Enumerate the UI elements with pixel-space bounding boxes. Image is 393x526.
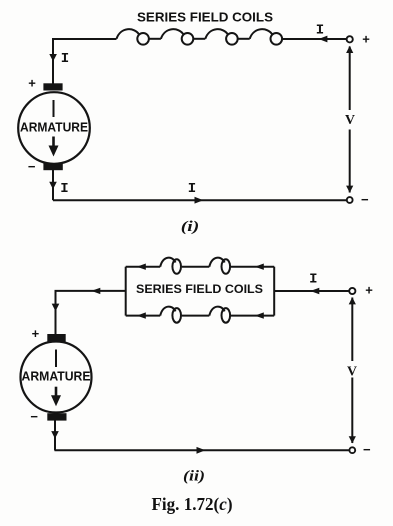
wire: bottom return (i) [53, 199, 347, 201]
arrow: current down out of armature (ii) [51, 431, 59, 439]
arrow: current I left toward coils (i) [319, 36, 328, 43]
svg-text:−: − [361, 192, 369, 207]
svg-text:I: I [316, 22, 324, 38]
wire: V arrow line upper (i) [349, 47, 351, 111]
brush top (i) [43, 83, 62, 90]
svg-text:(ii): (ii) [183, 469, 205, 485]
arrow: current I left on right lead (ii) [310, 288, 319, 294]
arrow: current I right on bottom wire (i) [195, 197, 204, 204]
svg-text:−: − [30, 409, 38, 424]
armature M1 circle (i) [18, 92, 90, 164]
arrow: bottom branch right arrowhead (ii) [255, 312, 264, 318]
wire: bottom return (ii) [55, 449, 350, 451]
svg-text:+: + [362, 32, 370, 47]
armature M2 circle (ii) [21, 342, 92, 413]
svg-text:−: − [363, 442, 371, 457]
svg-text:I: I [60, 181, 68, 197]
svg-text:Fig. 1.72(c): Fig. 1.72(c) [152, 494, 233, 514]
svg-text:I: I [61, 51, 69, 67]
armature M1 thick arrow head (i) [49, 146, 59, 157]
armature M2 thick arrow head (ii) [51, 395, 61, 406]
arrow: current I down out of armature (i) [49, 182, 57, 190]
arrow: current right on bottom wire (ii) [197, 447, 206, 454]
svg-text:V: V [347, 365, 357, 380]
terminal + (i) [347, 36, 353, 42]
arrow: current I down into armature (i) [49, 54, 57, 61]
wire: V arrow line upper (ii) [351, 298, 353, 362]
wire: left lead of coil box to armature (ii) [56, 291, 126, 334]
terminal + (ii) [349, 288, 355, 294]
coil L2b parallel field coils bottom branch (ii) [126, 307, 275, 323]
arrow: current left on left lead (ii) [91, 288, 100, 294]
svg-text:+: + [32, 326, 40, 341]
brush bottom (ii) [47, 413, 66, 420]
arrow: current down into armature (ii) [52, 304, 60, 312]
arrow: bottom branch left arrowhead (ii) [137, 312, 146, 318]
svg-text:SERIES FIELD COILS: SERIES FIELD COILS [136, 282, 263, 296]
armature M1 inner arrow shaft (i) [52, 137, 55, 148]
arrow: V up arrowhead (i) [346, 46, 353, 53]
wire: left rail bottom segment (i) [52, 170, 54, 200]
arrow: V up arrowhead (ii) [349, 297, 356, 304]
svg-text:ARMATURE: ARMATURE [22, 369, 91, 383]
circuit (ii) field coil box left edge [125, 267, 127, 316]
arrow: V down arrowhead (i) [346, 186, 353, 193]
wire: V arrow line lower (i) [349, 130, 351, 193]
svg-text:I: I [188, 181, 196, 197]
brush top (ii) [47, 334, 65, 342]
wire: left rail bottom segment (ii) [54, 421, 56, 451]
armature M2 inner arrow shaft (ii) [55, 387, 58, 397]
svg-text:+: + [28, 76, 36, 91]
terminal - (ii) [349, 447, 355, 453]
wire: circuit (i) top-left from armature + brush up and right to coils [53, 39, 117, 84]
arrow: top branch left arrowhead (ii) [137, 264, 146, 270]
wire: coils to + terminal (i) [282, 38, 346, 40]
svg-text:(i): (i) [181, 219, 200, 235]
wire: V arrow line lower (ii) [351, 378, 353, 444]
svg-text:+: + [365, 283, 373, 298]
wire: right lead of coil box to + terminal (ii) [274, 290, 349, 292]
coil L1 series field coils (i) [117, 29, 283, 44]
circuit (ii) field coil box right edge [273, 267, 275, 316]
svg-text:−: − [28, 159, 36, 174]
arrow: V down arrowhead (ii) [349, 436, 356, 443]
svg-text:SERIES FIELD COILS: SERIES FIELD COILS [137, 11, 273, 25]
brush bottom (i) [43, 163, 62, 170]
svg-text:ARMATURE: ARMATURE [20, 120, 88, 134]
terminal - (i) [347, 197, 353, 203]
coil L2a parallel field coils top branch (ii) [126, 258, 275, 274]
svg-text:V: V [345, 113, 355, 128]
armature M2 inner conductor line (ii) [55, 350, 57, 368]
armature M1 inner conductor line (i) [53, 100, 55, 117]
svg-text:I: I [309, 271, 317, 287]
arrow: top branch right arrowhead (ii) [255, 264, 264, 270]
